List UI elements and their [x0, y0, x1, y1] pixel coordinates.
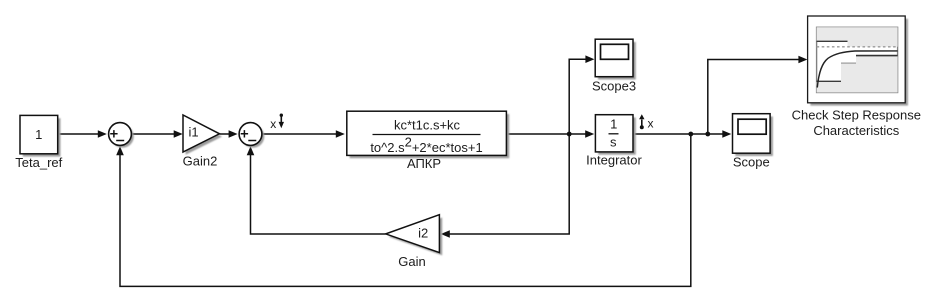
svg-text:Scope3: Scope3 [592, 78, 636, 93]
dashed steady-state line [817, 46, 898, 48]
svg-text:Teta_ref: Teta_ref [15, 155, 62, 170]
wire: sum1 to gain2 [132, 130, 183, 138]
wire: gain2 to sum2 [220, 130, 238, 138]
node: junction at TF output [567, 132, 572, 137]
wire: outer feedback loop to sum1 bottom [116, 134, 691, 286]
svg-text:Gain2: Gain2 [183, 153, 218, 168]
step response curve [817, 51, 897, 88]
lower bound line right [856, 55, 898, 57]
wire: Gain i2 to sum2 bottom [247, 146, 386, 234]
wire: sum2 to transfer fn [262, 130, 345, 138]
gray region below lower bound [817, 56, 898, 93]
upper bound line [817, 40, 848, 42]
svg-text:Characteristics: Characteristics [813, 123, 899, 138]
svg-text:kc*t1c.s+kc: kc*t1c.s+kc [394, 117, 461, 132]
wire: constant to sum1 [58, 130, 107, 138]
sum junction S1 [109, 123, 134, 148]
transfer function block APKR [347, 111, 509, 171]
svg-text:i1: i1 [188, 125, 198, 140]
svg-text:x: x [270, 117, 276, 131]
svg-text:x: x [648, 117, 654, 131]
gain Gain (i2, feedback) [386, 215, 443, 269]
gain Gain2 (i1) [183, 115, 222, 168]
annotation x up-arrow at integrator output [639, 114, 653, 130]
lower bound line mid [841, 62, 856, 64]
wire: branch up to Check Step Response [708, 56, 808, 134]
node: junction to check branch [705, 132, 710, 137]
svg-text:Scope: Scope [733, 154, 770, 169]
wire: transfer fn to integrator [506, 130, 594, 138]
integrator block 1/s [586, 115, 642, 168]
constant block Teta_ref [15, 115, 62, 169]
gray region above upper bound [817, 27, 898, 47]
sum junction S2 [239, 123, 264, 148]
lower bound line left [817, 80, 841, 82]
svg-text:Check Step Response: Check Step Response [792, 108, 921, 123]
svg-text:АПКР: АПКР [407, 156, 441, 171]
plot area [817, 27, 898, 92]
wire: branch up to Scope3 [569, 55, 594, 134]
svg-text:1: 1 [35, 127, 42, 142]
svg-text:i2: i2 [418, 225, 428, 240]
scope block Scope [733, 114, 773, 170]
svg-text:s: s [610, 134, 617, 149]
check step response characteristics block [792, 16, 921, 138]
node: junction to outer loop [688, 132, 693, 137]
svg-text:1: 1 [610, 117, 617, 132]
scope block Scope3 [592, 39, 636, 93]
svg-text:Gain: Gain [398, 254, 425, 269]
annotation x down-arrow at sum2 output [270, 114, 284, 131]
wire: integrator to Scope [633, 130, 731, 138]
wire: feedback branch down to Gain i2 [441, 134, 569, 238]
svg-text:Integrator: Integrator [586, 153, 642, 168]
